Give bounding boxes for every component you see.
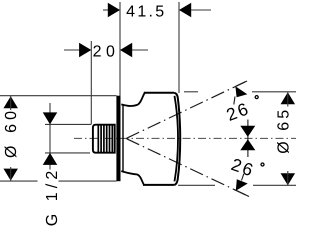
wire: dia60 dim line top tail [10, 96, 12, 110]
thread nipple G1/2 outline [93, 125, 115, 153]
arrowhead dia60 bottom (points down) [3, 169, 18, 181]
wire: dimension 20 right tail [121, 49, 148, 51]
arrowhead 26deg lower inner (points up to centerline) [240, 139, 255, 150]
arrowhead 41.5 left [108, 3, 120, 18]
center line (horizontal dash-dot axis y=138.4) [74, 137, 296, 139]
wire: extension line left (41.5 dim, wall plane x=120) [119, 2, 121, 96]
face rim inner arc [175, 96, 179, 182]
body neck top edge [121, 93, 144, 106]
wire: extension line right (41.5 dim, face plane x=179) [178, 2, 180, 93]
spray cone line upper (26 deg, dash-dot) [127, 81, 248, 138]
wire: dimension 20 left tail [64, 49, 90, 51]
body neck bottom edge [121, 171, 144, 185]
arrowhead 26deg lower outer (tip on lower cone line) [236, 179, 248, 191]
wire: dia65 dim line top tail [287, 92, 289, 107]
wire: dimension 41.5 right tail [180, 9, 211, 11]
arrowhead 20 left [79, 43, 91, 58]
neck joint vertical line [122, 105, 124, 171]
wire: tail lower outer arrow [242, 174, 244, 181]
wire: extension line top (dia 65) seg B [252, 91, 296, 93]
svg-text:Ø 65: Ø 65 [276, 107, 293, 154]
wire: dia60 dim line bottom tail [10, 167, 12, 181]
arrowhead G1/2 bottom (points up, outside) [43, 153, 58, 165]
arrowhead G1/2 top (points down, outside) [43, 112, 58, 124]
wire: upper cone line end solid segment [236, 81, 247, 86]
wire: G1/2 extension line bottom (thread bottom) [45, 152, 90, 154]
wire: lower cone line end solid segment [234, 189, 249, 196]
wire: dia65 dim line bottom tail [287, 171, 289, 185]
wire: extension line bottom (dia 60) seg B [59, 180, 117, 182]
wire: extension line bottom (dia 65) seg B [253, 184, 296, 186]
thread hatch lines [98, 125, 112, 152]
arrowhead 26deg upper outer (tip on upper cone line) [235, 86, 247, 97]
wire: dimension 41.5 left tail [103, 9, 119, 11]
arrowhead 20 right [120, 43, 132, 58]
arrowhead dia65 top (points up) [281, 92, 296, 104]
flange escutcheon (edge view, filled) [116, 96, 120, 182]
wire: G1/2 extension line top (thread top) [45, 123, 91, 125]
arrowhead dia65 bottom (points down) [281, 173, 296, 185]
wire: extension line bottom (dia 60 flange bottom y=181.1) seg A [0, 180, 38, 182]
wire: bowtie arrows tail vertical [247, 120, 249, 158]
svg-text:Ø 60: Ø 60 [3, 107, 20, 158]
body top edge [144, 92, 174, 94]
svg-text:G 1/2: G 1/2 [44, 167, 61, 227]
wire: extension line top (dia 65 body top y=91.8) seg A [184, 91, 198, 93]
wire: G1/2 dimension line vertical [49, 103, 51, 170]
arrowhead dia60 top (points up) [3, 96, 18, 108]
degree ring lower [261, 163, 264, 166]
svg-text:20: 20 [93, 44, 120, 61]
wire: tail upper outer arrow [234, 97, 235, 105]
body bottom edge [143, 184, 174, 186]
spray cone line lower (26 deg, dash-dot) [127, 139, 250, 197]
wire: extension line top (dia 60 flange top y=95.7) [0, 95, 117, 97]
body right silhouette (face outer arc with corner fillets) [174, 93, 180, 185]
arrowhead 26deg upper inner (points down to centerline) [240, 126, 255, 137]
degree ring upper [255, 96, 258, 99]
arrowhead 41.5 right [179, 3, 191, 18]
wire: extension line bottom (dia 65 body bottom y=185.3) seg A [178, 184, 215, 186]
wire: extension line left (20 dim, thread start x=91.3) [90, 41, 92, 125]
svg-text:41.5: 41.5 [126, 3, 166, 20]
